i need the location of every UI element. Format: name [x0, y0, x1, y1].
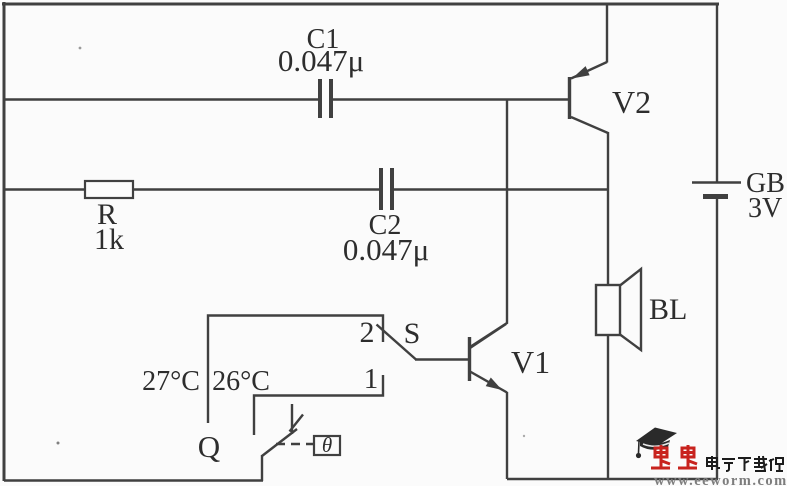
svg-text:26°C: 26°C [212, 366, 270, 397]
capacitor C1 [320, 79, 331, 118]
label 1k [94, 223, 124, 256]
label C1 [307, 24, 340, 55]
svg-text:S: S [404, 317, 421, 350]
label S [404, 317, 421, 350]
label 1 [364, 363, 379, 395]
watermark url [654, 473, 787, 486]
wire R to C2 [133, 188, 379, 190]
svg-text:0.047μ: 0.047μ [343, 232, 429, 267]
label GB [746, 168, 785, 199]
capacitor C2 [381, 168, 392, 210]
svg-text:V1: V1 [511, 344, 550, 380]
wire bottom left rail [4, 479, 263, 481]
switch Q contact and arm [262, 404, 303, 456]
wire middle rail: left rail to R [4, 188, 86, 190]
speaker BL [596, 269, 641, 350]
watermark logo graduation cap [636, 428, 677, 459]
wire left rail [3, 2, 6, 481]
wire C1 to V2 base [333, 98, 568, 100]
svg-text:1: 1 [364, 363, 379, 395]
label C2 value 0.047u [343, 232, 429, 267]
wire V1 base from switch pole [415, 358, 468, 360]
wire V1 emitter to bottom rail [506, 392, 508, 479]
watermark text dianzi xiazaizhan [707, 456, 783, 471]
label BL [649, 293, 687, 326]
svg-text:0.047μ: 0.047μ [278, 43, 364, 78]
wire V2 collector down to speaker [607, 132, 609, 286]
wire V1 collector riser [470, 100, 507, 348]
svg-text:www.eeworm.com: www.eeworm.com [654, 473, 787, 486]
battery GB [692, 183, 741, 197]
svg-text:27°C: 27°C [142, 366, 200, 397]
wire bottom right rail [507, 478, 718, 480]
wire right rail lower segment from battery [716, 197, 718, 479]
label 2 [360, 316, 375, 349]
wire V2 emitter to top rail [606, 4, 608, 63]
wire contact 1 rail with stub and drop [254, 375, 383, 435]
watermark text chong chong [651, 445, 697, 468]
label Q [198, 429, 220, 464]
label 26 C [212, 366, 270, 397]
label V1 [511, 344, 550, 380]
thermal actuator dashed link [276, 443, 313, 445]
svg-text:3V: 3V [748, 193, 782, 224]
wire contact 2 rail with end bends [208, 316, 383, 424]
wire node A: left rail to C1 [4, 98, 318, 100]
label C1 value 0.047u [278, 43, 364, 78]
svg-text:1k: 1k [94, 223, 124, 256]
label 3V [748, 193, 782, 224]
label C2 [369, 210, 402, 241]
wire Q pivot to bottom left rail [261, 455, 263, 481]
label 27 C [142, 366, 200, 397]
wire speaker to bottom rail [607, 335, 609, 479]
svg-text:Q: Q [198, 429, 220, 464]
thermal sensor box theta [314, 433, 340, 457]
label R [97, 198, 117, 231]
svg-text:2: 2 [360, 316, 375, 349]
wire C2 to V2 collector node [394, 188, 608, 190]
label V2 [612, 84, 651, 120]
switch S arm [377, 325, 417, 360]
svg-text:θ: θ [322, 433, 332, 457]
wire top rail [2, 3, 719, 6]
resistor R [85, 181, 133, 198]
svg-text:V2: V2 [612, 84, 651, 120]
wire right rail upper segment to battery [716, 4, 718, 182]
transistor V1 [470, 324, 508, 393]
svg-text:BL: BL [649, 293, 687, 326]
transistor V2 [570, 62, 609, 133]
